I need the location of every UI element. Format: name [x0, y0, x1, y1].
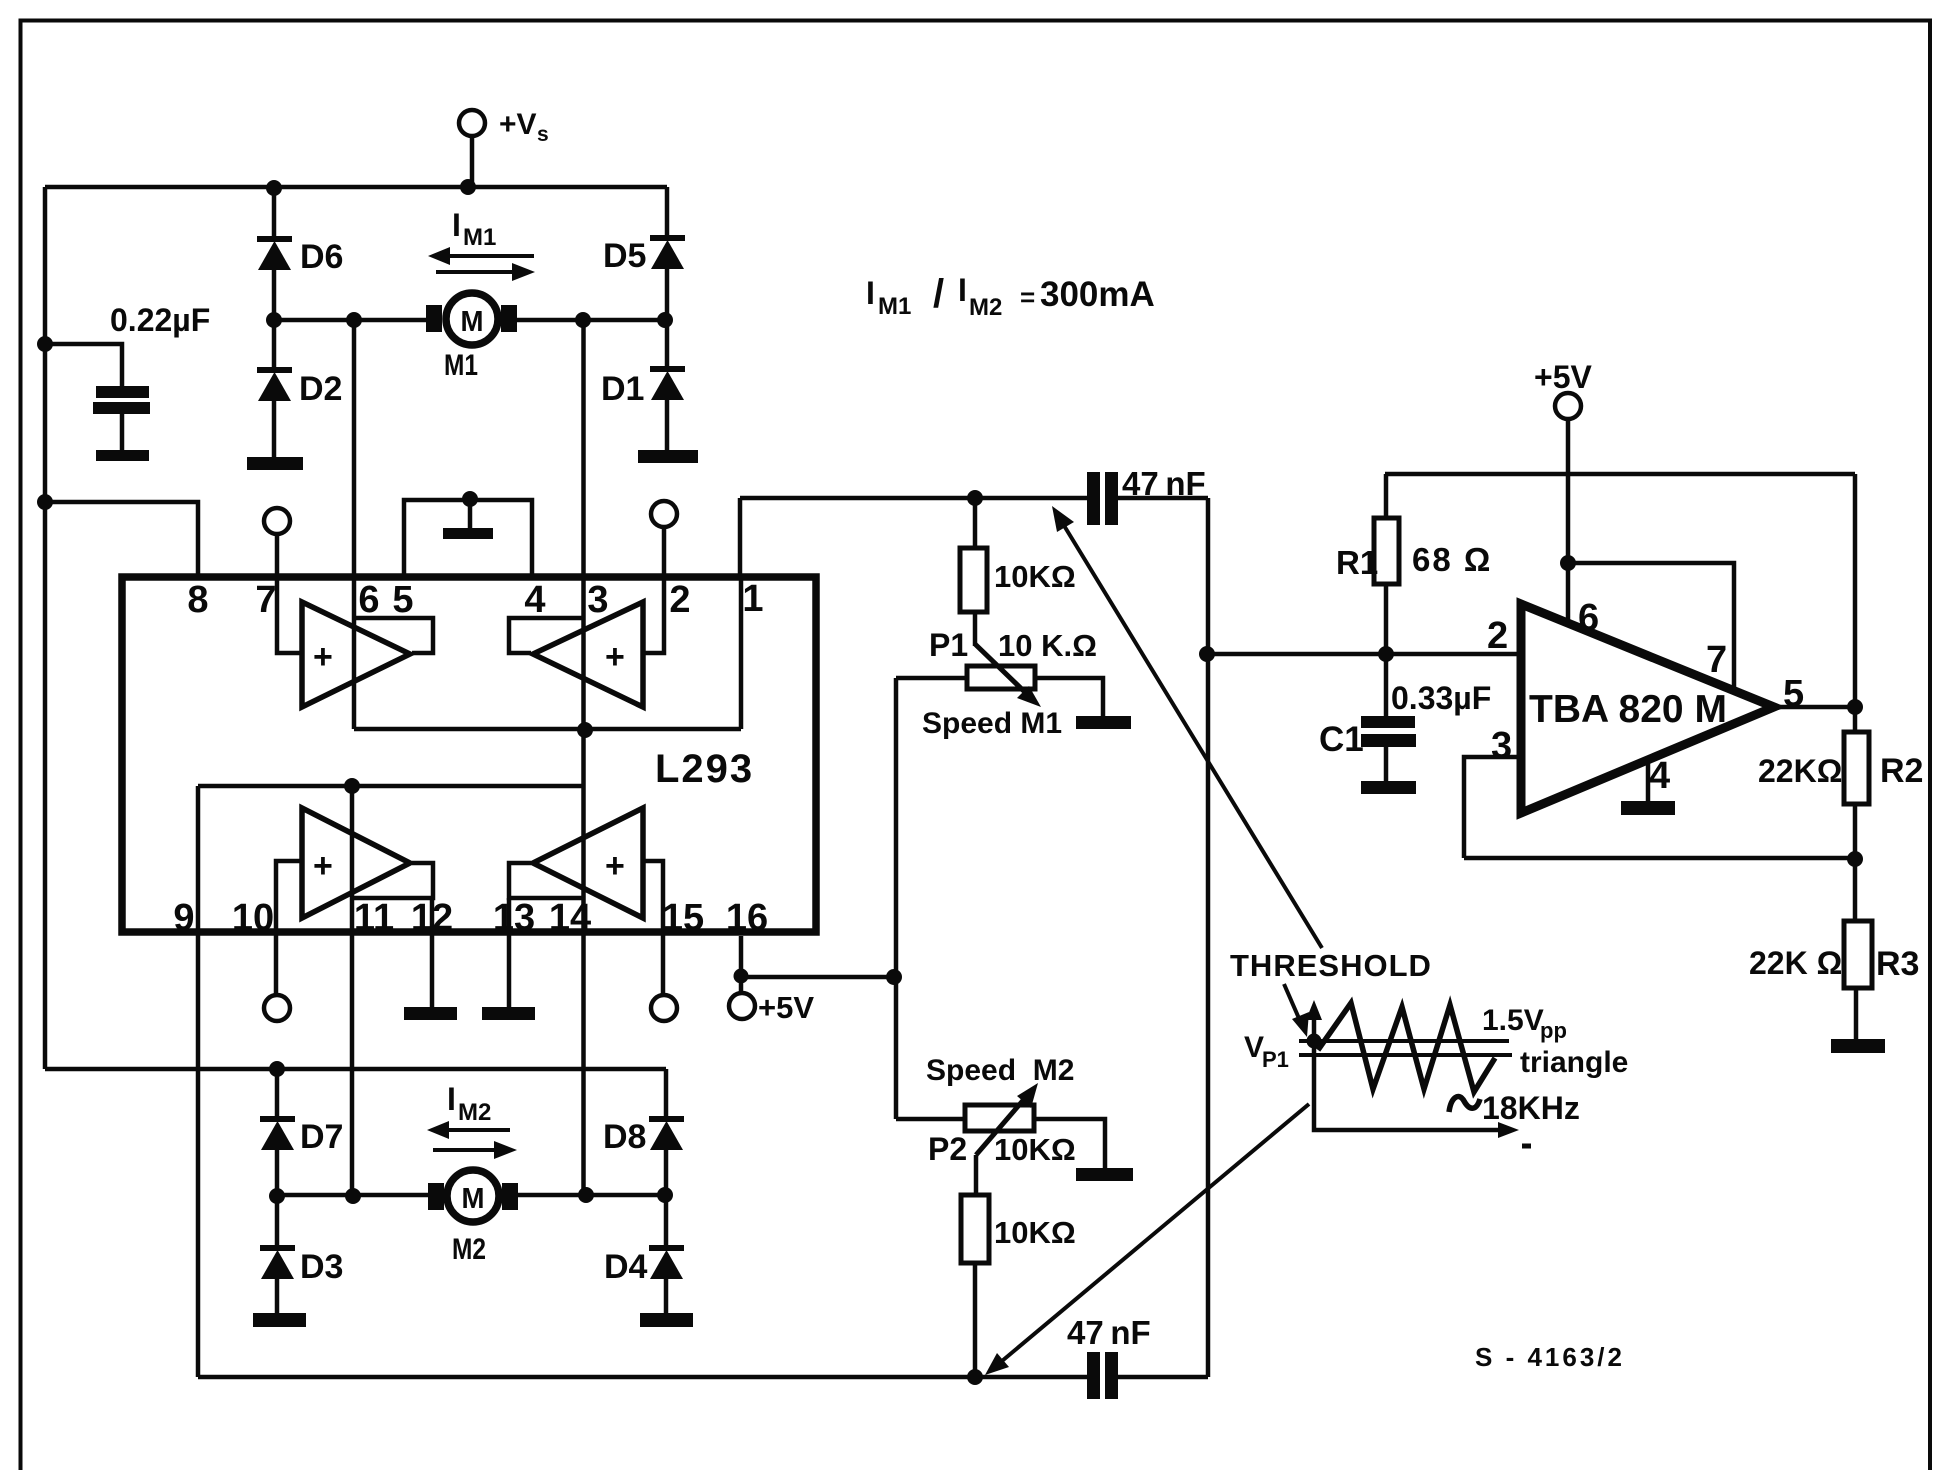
- svg-text:47 nF: 47 nF: [1122, 465, 1206, 502]
- svg-text:I: I: [958, 272, 967, 308]
- svg-text:12: 12: [411, 897, 453, 939]
- svg-text:15: 15: [662, 897, 704, 939]
- svg-text:D5: D5: [603, 237, 646, 275]
- svg-text:68 Ω: 68 Ω: [1412, 541, 1492, 578]
- svg-text:8: 8: [187, 579, 208, 621]
- svg-text:300mA: 300mA: [1040, 275, 1155, 314]
- svg-text:Speed M1: Speed M1: [922, 707, 1062, 740]
- svg-text:4: 4: [1649, 755, 1670, 797]
- svg-text:2: 2: [669, 579, 690, 621]
- svg-text:D8: D8: [603, 1118, 646, 1156]
- svg-text:C1: C1: [1319, 720, 1364, 759]
- svg-text:R3: R3: [1876, 945, 1919, 983]
- svg-text:3: 3: [1491, 725, 1512, 767]
- svg-text:D6: D6: [300, 238, 343, 276]
- svg-text:+5V: +5V: [758, 990, 814, 1025]
- svg-text:s: s: [537, 123, 549, 146]
- svg-text:P2: P2: [928, 1131, 967, 1167]
- svg-text:+: +: [605, 847, 625, 885]
- svg-text:S - 4163/2: S - 4163/2: [1475, 1342, 1625, 1372]
- svg-text:Speed M2: Speed M2: [926, 1054, 1074, 1087]
- svg-text:V: V: [1244, 1031, 1264, 1064]
- svg-text:18KHz: 18KHz: [1482, 1090, 1580, 1126]
- svg-text:M2: M2: [458, 1099, 491, 1126]
- svg-text:I: I: [866, 275, 875, 311]
- svg-text:I: I: [452, 207, 461, 243]
- svg-text:4: 4: [524, 579, 545, 621]
- svg-text:triangle: triangle: [1520, 1046, 1628, 1079]
- svg-text:=: =: [1020, 282, 1035, 312]
- svg-text:I: I: [447, 1081, 456, 1117]
- svg-text:D4: D4: [604, 1248, 648, 1286]
- svg-text:D2: D2: [299, 370, 342, 408]
- svg-text:10: 10: [232, 897, 274, 939]
- svg-text:+5V: +5V: [1534, 359, 1592, 395]
- svg-text:M1: M1: [463, 224, 496, 251]
- svg-text:D1: D1: [601, 370, 644, 408]
- svg-text:11: 11: [354, 897, 394, 939]
- svg-text:M2: M2: [969, 294, 1002, 321]
- svg-text:+V: +V: [499, 108, 537, 141]
- svg-text:6: 6: [1578, 597, 1599, 639]
- svg-text:47 nF: 47 nF: [1067, 1314, 1151, 1351]
- svg-text:THRESHOLD: THRESHOLD: [1230, 948, 1432, 983]
- svg-text:22K Ω: 22K Ω: [1749, 945, 1842, 981]
- svg-text:2: 2: [1487, 615, 1508, 657]
- svg-text:1.5V: 1.5V: [1482, 1004, 1544, 1037]
- svg-text:9: 9: [173, 897, 194, 939]
- svg-text:+: +: [605, 638, 625, 676]
- svg-text:1: 1: [742, 578, 763, 620]
- svg-text:D3: D3: [300, 1248, 343, 1286]
- svg-text:3: 3: [587, 579, 608, 621]
- svg-text:D7: D7: [300, 1118, 343, 1156]
- svg-text:16: 16: [726, 897, 768, 939]
- svg-text:7: 7: [255, 579, 276, 621]
- svg-text:0.33µF: 0.33µF: [1391, 680, 1491, 716]
- svg-text:R1: R1: [1336, 544, 1378, 581]
- svg-text:TBA 820 M: TBA 820 M: [1529, 688, 1727, 731]
- svg-text:22KΩ: 22KΩ: [1758, 753, 1842, 789]
- svg-text:5: 5: [392, 579, 413, 621]
- svg-text:M: M: [461, 306, 484, 338]
- svg-text:M1: M1: [444, 349, 478, 382]
- svg-text:13: 13: [493, 897, 535, 939]
- svg-text:M2: M2: [452, 1233, 486, 1266]
- svg-text:10KΩ: 10KΩ: [994, 1132, 1076, 1167]
- svg-text:M: M: [462, 1183, 485, 1215]
- svg-text:10KΩ: 10KΩ: [994, 559, 1076, 594]
- svg-text:14: 14: [549, 897, 591, 939]
- svg-text:/: /: [933, 272, 944, 316]
- svg-text:10 K.Ω: 10 K.Ω: [998, 628, 1097, 663]
- svg-text:7: 7: [1706, 639, 1727, 681]
- svg-text:+: +: [313, 847, 333, 885]
- svg-text:0.22µF: 0.22µF: [110, 302, 210, 338]
- svg-text:R2: R2: [1880, 752, 1923, 790]
- svg-text:10KΩ: 10KΩ: [994, 1215, 1076, 1250]
- svg-text:6: 6: [358, 579, 379, 621]
- svg-text:pp: pp: [1540, 1018, 1567, 1043]
- svg-text:L293: L293: [655, 747, 754, 791]
- svg-text:M1: M1: [878, 293, 911, 320]
- svg-text:+: +: [313, 638, 333, 676]
- svg-text:P1: P1: [1262, 1047, 1289, 1072]
- svg-text:P1: P1: [929, 627, 968, 663]
